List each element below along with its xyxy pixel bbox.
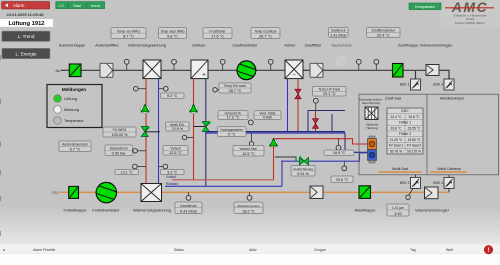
svg-text:Nacherhitzer: Nacherhitzer [332,44,354,48]
readout heating valve [291,166,315,177]
svg-text:13.1 °C: 13.1 °C [121,171,133,175]
wire exhaust duct 7 [438,191,449,193]
node Abluft Saal [378,167,422,172]
wire cooler red pipe [297,79,299,132]
svg-text:BSK 1: BSK 1 [400,83,410,87]
title box Lueftung 1912 [0,19,53,27]
svg-text:I.C: I.C [59,4,64,8]
svg-text:FV Saal 1: FV Saal 1 [389,144,404,148]
AMC logo [445,0,494,25]
svg-text:9.2 °C: 9.2 °C [167,171,177,175]
readout 18.5 [324,150,354,155]
svg-text:Düsendruck: Düsendruck [110,146,128,150]
legend lamp Lueftung [54,95,77,103]
svg-text:50.175 %: 50.175 % [407,149,421,153]
filter F1 (Au&szlig;enluftfilter) [100,63,113,77]
sensor T after WRG [172,59,177,70]
wire drop to panel [344,133,346,152]
svg-text:Fortluftventilator: Fortluftventilator [92,209,120,213]
damper exhaust (Fortluftklappe) [69,186,79,198]
wire static heating flow [274,139,368,144]
sensor BSK2 [406,195,410,199]
sensor heater flow [182,135,193,139]
legend box Meldungen [47,85,102,128]
sensor frost [220,59,225,70]
valve cooler HT [295,89,301,99]
svg-text:0 °C: 0 °C [228,133,236,137]
svg-text:Telefon (02862) 9303-0: Telefon (02862) 9303-0 [455,21,485,25]
svg-text:Komparator: Komparator [415,5,436,9]
wire supply duct 5 [256,69,286,71]
svg-text:Ablufttemperatur: Ablufttemperatur [237,204,260,208]
sensor exhaust temp [247,192,252,200]
sensor 33.6 [342,161,347,171]
svg-text:23.4 °C: 23.4 °C [390,115,402,119]
button Komparator [409,3,441,10]
fire damper BSK 3 [433,79,454,90]
svg-text:Wärmerückgewinnung: Wärmerückgewinnung [133,209,171,213]
wire distribution header royal [206,132,345,134]
readout flow temp 2 [163,146,188,156]
valve actuator heater [189,104,198,113]
svg-text:17.6 °C: 17.6 °C [211,33,224,38]
svg-text:18.5 °C: 18.5 °C [333,151,346,155]
svg-text:Temp Erh.nach: Temp Erh.nach [224,84,246,88]
svg-text:FO: FO [53,191,58,195]
svg-text:Rücklauf: Rücklauf [166,182,179,186]
sensor supply duct 1 [356,59,361,70]
wire panel return [345,151,368,153]
svg-text:Zuluftfilter: Zuluftfilter [305,44,322,48]
wire supply duct 4 [208,69,238,71]
valve heater [202,122,211,132]
wire exhaust duct 4 [162,191,311,193]
sensor T outdoor [124,59,129,70]
wire static heating return [281,153,368,161]
fire damper BSK 4 [433,177,454,188]
svg-text:21.29 °C: 21.29 °C [390,138,403,142]
readout homogenizer [218,127,247,137]
wire WRG blue pipe [158,79,160,184]
valve actuator static heating [269,138,278,147]
svg-text:19.1 °C: 19.1 °C [323,92,336,96]
svg-text:Aktiv: Aktiv [249,248,257,252]
sensor 18.5 [336,139,341,151]
node Abluft Cafeteria [430,167,467,172]
svg-text:DDC: DDC [401,109,409,113]
svg-text:23.80 °C: 23.80 °C [408,138,421,142]
svg-text:Alarm Priorität: Alarm Priorität [33,248,55,252]
readout supply temp [367,28,401,38]
svg-text:Tag: Tag [410,248,416,252]
cooler register (K&uuml;hler) [285,60,303,79]
legend lamp Temperatur [54,117,85,125]
sensor WRG circuit [134,86,147,91]
wire drop 332 [331,114,333,132]
fire damper BSK 2 [400,177,421,188]
readout WRG flow temp [161,93,185,98]
wire exhaust duct 5 [323,191,359,193]
svg-text:8.7 °C: 8.7 °C [123,33,134,38]
sensor header top [248,120,253,125]
svg-text:Saaldruck: Saaldruck [331,29,346,33]
svg-text:Homogenisierer: Homogenisierer [221,128,244,132]
wire HT red drop [315,111,317,132]
sensor WRG blue [159,164,168,169]
readout exhaust temp [234,202,263,214]
svg-text:Fühler 2: Fühler 2 [399,132,411,136]
svg-text:26.7 °C: 26.7 °C [259,33,272,38]
wire BSK4 top stub [448,175,450,178]
svg-text:12.5 °C: 12.5 °C [242,152,255,156]
button Saal [68,2,85,9]
wire static heating riser [273,146,275,180]
heat exchanger WRG exhaust [141,184,162,202]
alarm button [2,2,50,9]
wire supply duct 3 [161,69,191,71]
legend lamp Meldung [54,106,79,114]
window edge marks [0,55,1,236]
svg-text:Gruppe: Gruppe [314,248,326,252]
svg-text:24.8 °C: 24.8 °C [408,115,420,119]
svg-text:Fühler 1: Fühler 1 [399,121,411,125]
wire WRG valve tee [146,131,160,133]
heat exchanger static heating [365,107,378,120]
exhaust fan (Fortluftventilator) [96,182,116,202]
svg-text:Abluftklappe: Abluftklappe [355,209,376,213]
svg-text:Außenluftfilter: Außenluftfilter [95,44,119,48]
sensor heater outlet [213,88,219,92]
wire supply duct 9 [439,69,450,71]
readout nozzle pressure [105,145,132,156]
heat exchanger WRG supply [143,60,161,79]
wire distribution header navy [206,131,345,133]
readout 3.52 [387,204,409,216]
sensor T after cooler [268,59,273,70]
svg-text:1.41 µm: 1.41 µm [392,206,404,210]
wire branch to BSK 1 [415,70,417,79]
readout hall pressure [329,28,349,38]
wire supply duct 2 [81,69,143,71]
svg-text:Kanaldruck: Kanaldruck [180,204,197,208]
wire HT header [308,110,345,112]
valve WRG pump [141,127,150,137]
damper exhaust air (Abluftklappe) [359,186,371,199]
svg-text:BSK 3: BSK 3 [433,83,443,87]
wire Vorlauf line [172,179,273,181]
svg-text:12.5 °C: 12.5 °C [169,151,182,155]
svg-text:Temp HT-Kreis: Temp HT-Kreis [318,87,340,91]
volume flow controller supply [426,65,439,76]
volume flow controller exhaust 1 [310,186,323,199]
svg-text:17.2 °C: 17.2 °C [227,116,240,120]
readout heater flow temp [218,111,248,120]
wire WRG red pipe [145,79,147,184]
svg-text:1.41 mbar: 1.41 mbar [330,33,347,37]
readout HT circuit temp [313,87,347,97]
svg-text:Abluft Cafeteria: Abluft Cafeteria [437,167,460,171]
wire supply duct inlet [61,69,69,71]
valve HT 2 [313,119,319,129]
readout temp before WRG [111,28,146,39]
svg-text:Heizung: Heizung [366,126,378,130]
svg-text:3.52: 3.52 [394,212,401,216]
wire cooler blue pipe [287,79,289,132]
svg-text:BSK 4: BSK 4 [433,181,443,185]
button trend [86,2,104,9]
readout temp after heater [251,28,280,39]
filter F2 (Zuluftfilter) [310,63,323,77]
svg-text:Volumenstromregler: Volumenstromregler [415,209,450,213]
supply fan (Zuluftventilator) [237,61,256,80]
sensor header bottom [249,133,253,146]
svg-text:Volumenstromregler: Volumenstromregler [420,44,454,48]
wire exhaust duct 1 [59,191,69,193]
svg-text:L. Energie: L. Energie [16,51,37,56]
svg-text:9.2 °C: 9.2 °C [167,94,178,98]
readout outdoor temp [59,141,91,152]
wire BSK4 bottom stub [448,189,450,193]
panel Zuluft Saal / Cafeteria [359,94,499,175]
svg-text:22.4 °C: 22.4 °C [377,32,390,37]
wire exhaust duct 3 [117,191,142,193]
svg-text:Abluft Saal: Abluft Saal [392,167,409,171]
wire heater red pipe [193,79,195,180]
svg-text:100.00 %: 100.00 % [111,133,128,137]
svg-text:L. Trend: L. Trend [18,34,35,39]
svg-text:Temperatur: Temperatur [64,118,84,123]
svg-text:6.7 °C: 6.7 °C [70,147,81,151]
svg-text:BSK 2: BSK 2 [400,181,410,185]
sensor nozzle pressure [133,149,146,153]
valve static heating [299,156,309,165]
svg-text:Außenkl.klappe: Außenkl.klappe [59,44,85,48]
svg-text:Zuluftventilator: Zuluftventilator [233,44,259,48]
svg-text:0.00 bar: 0.00 bar [112,152,127,156]
svg-text:33.6 °C: 33.6 °C [336,178,349,182]
button I.C [56,2,68,9]
svg-text:Wert: Wert [446,248,453,252]
svg-text:Fortluftklappe: Fortluftklappe [63,209,86,213]
readout 13.1 [115,169,139,174]
svg-text:18.2 °C: 18.2 °C [242,209,255,213]
DDC table [387,108,423,154]
svg-text:23.01.2025 11:05:48: 23.01.2025 11:05:48 [7,12,45,17]
svg-text:Kühler: Kühler [285,44,297,48]
damper supply (Zuluftklappe) [393,64,404,78]
svg-text:trend: trend [91,4,100,8]
svg-text:23.55 °C: 23.55 °C [408,126,421,130]
readout temp after WRG [159,28,187,39]
svg-text:!: ! [488,248,490,254]
wire exhaust duct 6 [371,191,425,193]
wire supply duct 6 [303,69,310,71]
valve actuator WRG [141,104,150,113]
svg-text:a: a [3,248,5,252]
svg-text:0.41 mbar: 0.41 mbar [180,209,198,213]
sensor WRG return [133,164,146,169]
svg-text:Lüftung: Lüftung [64,96,77,101]
wire HT drop [307,111,309,132]
svg-text:9.8 °C: 9.8 °C [167,33,178,38]
svg-text:Erhitzer: Erhitzer [192,44,206,48]
readout 33.6 [331,176,353,183]
svg-text:Status: Status [174,248,184,252]
svg-text:Wandheizkörper: Wandheizkörper [440,97,465,101]
sensor exhaust pressure [186,192,191,200]
svg-text:28.7 °C: 28.7 °C [229,89,242,93]
svg-text:Zuluft Saal: Zuluft Saal [385,97,401,101]
alarm indicator icon [484,245,493,254]
wire heater valve tee [194,126,206,128]
svg-text:Außentemperatur: Außentemperatur [62,142,89,146]
svg-text:FU WRG: FU WRG [113,128,127,132]
svg-text:50.78 %: 50.78 % [390,149,402,153]
svg-text:70.9 %: 70.9 % [171,127,183,131]
svg-text:Meldung: Meldung [64,107,79,112]
wire heater return pipe [205,79,207,187]
sensor HT circuit [313,98,318,110]
svg-text:0 kW: 0 kW [263,116,272,120]
button L. Belegung [2,48,50,58]
svg-text:Lüftung 1912: Lüftung 1912 [8,21,44,27]
readout FU WRG [103,127,136,137]
readout static flow temp [233,146,264,157]
readout frost sensor [203,28,232,39]
wire loop right drop [281,161,283,186]
svg-text:Meldungen: Meldungen [62,87,86,92]
readout temp heater out [219,83,251,93]
pump unit [368,136,377,163]
wire supply duct 7 [323,69,393,71]
readout 9.2 lower [161,169,185,174]
svg-text:Vorlauf: Vorlauf [170,146,180,150]
svg-text:+: + [202,73,206,79]
svg-text:−: − [292,73,296,79]
wire exhaust duct 2 [79,191,97,193]
svg-text:Vorlauf Stat.: Vorlauf Stat. [240,147,258,151]
sensor supply duct 2 [374,59,379,70]
status bar [3,248,453,252]
faint circle mark [337,57,346,66]
wire BSK2 top stub [415,175,417,178]
svg-text:Wärmerückgewinnung: Wärmerückgewinnung [128,44,166,48]
wire branch to BSK 3 [448,70,450,79]
button L. Trend [2,31,50,41]
svg-text:Ventil Heizung: Ventil Heizung [293,167,313,171]
wire actuator stem [275,157,296,161]
readout heater valve [166,122,190,131]
svg-text:AU: AU [56,69,61,73]
volume flow controller exhaust 2 [425,187,439,199]
readout exhaust pressure [175,202,202,214]
svg-text:Saal: Saal [73,4,81,8]
svg-text:FV Saal 2: FV Saal 2 [407,144,422,148]
readout cooling power [254,111,281,120]
wire BSK2 sensor stem [409,189,413,196]
damper outdoor air (Au&szlig;enkl.klappe) [69,64,81,77]
svg-text:0.01 %: 0.01 % [297,172,309,176]
svg-text:Zuluftklappe: Zuluftklappe [398,44,418,48]
svg-text:Vorlauf: Vorlauf [166,175,176,179]
wire loop bottom [165,185,282,187]
svg-text:Gas-Heizung: Gas-Heizung [362,101,380,105]
heater register (Erhitzer) [191,60,208,79]
sensor WRG blue top [159,86,169,91]
wire supply duct 8 [403,69,426,71]
svg-text:Alarm: Alarm [13,3,25,8]
fire damper BSK 1 [400,79,421,90]
svg-text:23.8 °C: 23.8 °C [390,126,402,130]
